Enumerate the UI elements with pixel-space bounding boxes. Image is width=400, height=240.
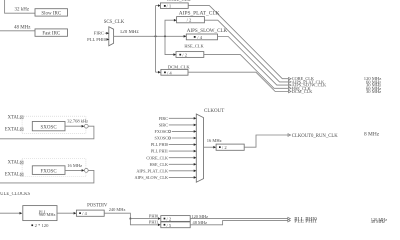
svg-text:DCM_CLK: DCM_CLK bbox=[168, 64, 191, 69]
svg-text:8 MHz: 8 MHz bbox=[364, 131, 380, 137]
arrow SIRC into clkout mux bbox=[194, 124, 197, 127]
svg-text:CORE_CLK: CORE_CLK bbox=[167, 0, 191, 2]
port arrow DCM_CLK bbox=[289, 90, 292, 93]
pad circle FXOSC input bbox=[168, 130, 170, 132]
divider /1 CORE bbox=[160, 3, 188, 8]
pin XTAL (fxosc) bbox=[20, 161, 23, 164]
svg-text:/ 2: / 2 bbox=[187, 18, 192, 23]
svg-text:EXTAL: EXTAL bbox=[5, 173, 20, 178]
container SXOSC module bbox=[22, 116, 86, 133]
pad circle FXOSC output bbox=[84, 169, 88, 173]
arrow FXOSC output bbox=[82, 169, 85, 172]
svg-text:2 * 120: 2 * 120 bbox=[35, 223, 49, 228]
divider /5 PHI1 bbox=[161, 222, 190, 228]
wire branch to PHI0 divider bbox=[130, 218, 157, 220]
svg-text:960 MHz: 960 MHz bbox=[39, 212, 56, 217]
svg-text:MODULE_CLOCKS: MODULE_CLOCKS bbox=[0, 192, 30, 197]
wire HSE_CLK to clkout mux bbox=[169, 163, 194, 165]
wire SIRC to clkout mux bbox=[169, 124, 194, 126]
wire PLL PHI0 to clkout mux bbox=[169, 144, 194, 146]
port arrow HSE_CLK bbox=[289, 87, 292, 90]
wire SIRC input from left edge bbox=[5, 0, 35, 13]
svg-text:32.768 kHz: 32.768 kHz bbox=[67, 118, 88, 123]
wire to HSE divider bbox=[165, 36, 174, 54]
svg-text:32 kHz: 32 kHz bbox=[15, 8, 30, 13]
svg-text:CLKOUT0_RUN_CLK: CLKOUT0_RUN_CLK bbox=[292, 134, 338, 139]
arrow into AIPS_PLAT divider bbox=[174, 19, 177, 22]
port arrow AIPS_PLAT_CLK bbox=[289, 81, 292, 84]
arrow SXOSC output bbox=[82, 125, 85, 128]
svg-text:/ 2: / 2 bbox=[182, 53, 187, 58]
arrow SXOSC into clkout mux bbox=[194, 137, 197, 140]
wire FXOSC output bbox=[65, 169, 82, 171]
svg-text:PLL PHI0: PLL PHI0 bbox=[151, 142, 168, 147]
svg-text:PHI0: PHI0 bbox=[149, 213, 159, 218]
wire to CORE divider and DCM divider (vertical) bbox=[156, 6, 159, 73]
svg-text:/ 1: / 1 bbox=[167, 4, 172, 9]
svg-text:FXOSC: FXOSC bbox=[155, 129, 169, 134]
svg-text:/ 4: / 4 bbox=[82, 211, 87, 216]
wire to AIPS_PLAT divider bbox=[165, 20, 174, 36]
wire SXOSC output bbox=[65, 125, 82, 127]
svg-text:XTAL: XTAL bbox=[8, 115, 20, 120]
port arrow AIPS_SLOW_CLK bbox=[289, 84, 292, 87]
pin EXTAL (sxosc) bbox=[20, 128, 23, 131]
svg-text:/ 4: / 4 bbox=[167, 70, 172, 75]
wire PLL PHI1 to clkout mux bbox=[169, 150, 194, 152]
wire AIPS_PLAT_CLK output diagonal bbox=[204, 20, 288, 82]
svg-text:FIRC: FIRC bbox=[159, 116, 169, 121]
wire PLL input from left edge bbox=[0, 212, 20, 214]
svg-text:PHI1: PHI1 bbox=[149, 220, 158, 225]
mux U1 SCS clock selector bbox=[109, 27, 114, 46]
svg-text:SXOSC: SXOSC bbox=[155, 136, 169, 141]
Slow IRC block bbox=[35, 9, 68, 16]
divider /2 CLKOUT bbox=[216, 144, 244, 150]
svg-text:HSE_CLK: HSE_CLK bbox=[184, 44, 204, 49]
wire CORE_CLK to clkout mux bbox=[169, 157, 194, 159]
PLL block bbox=[23, 206, 57, 221]
wire PHI0 output bbox=[190, 218, 287, 220]
pin EXTAL (fxosc) bbox=[20, 173, 23, 176]
wire AIPS_SLOW_CLK output diagonal bbox=[218, 37, 289, 86]
wire AIPS_PLAT_CLK to clkout mux bbox=[169, 170, 194, 172]
pin XTAL (sxosc) bbox=[20, 116, 23, 119]
arrow into DCM divider bbox=[158, 71, 161, 74]
port arrow CLKOUT_RUN_CLK bbox=[288, 134, 291, 137]
arrow PLL PHI0 into mux bbox=[106, 38, 109, 41]
svg-text:Slow IRC: Slow IRC bbox=[41, 11, 62, 16]
wire FIRC to clkout mux bbox=[169, 117, 194, 119]
arrow into HSE divider bbox=[173, 53, 176, 56]
wire PLL to POSTDIV bbox=[57, 212, 74, 214]
arrow HSE_CLK into clkout mux bbox=[194, 163, 197, 166]
Fast IRC block bbox=[35, 29, 68, 36]
wire CORE_CLK output diagonal bbox=[188, 6, 288, 79]
svg-text:120 MHz: 120 MHz bbox=[120, 30, 140, 35]
divider /4 AIPS_SLOW bbox=[186, 34, 217, 40]
svg-text:CLKOUT: CLKOUT bbox=[204, 109, 224, 114]
pad circle SXOSC output bbox=[84, 124, 88, 128]
svg-text:PLL PHI1: PLL PHI1 bbox=[294, 218, 317, 224]
svg-text:AIPS_SLOW_CLK: AIPS_SLOW_CLK bbox=[134, 175, 168, 180]
wire PHI1 output bbox=[190, 221, 287, 225]
arrow into CLKOUT divider bbox=[213, 146, 216, 149]
arrow PLL PHI1 into clkout mux bbox=[194, 150, 197, 153]
node junction PLL branch bbox=[130, 218, 132, 220]
wire POSTDIV output to branch bbox=[104, 213, 130, 218]
port arrow PLL PHI1 bbox=[288, 219, 291, 222]
svg-text:FIRC: FIRC bbox=[94, 31, 104, 36]
wire branch to PHI1 divider bbox=[130, 219, 157, 225]
arrow into PHI0 divider bbox=[158, 217, 161, 220]
svg-text:/ 5: / 5 bbox=[167, 223, 172, 228]
svg-text:SXOSC: SXOSC bbox=[41, 126, 58, 131]
svg-text:PLL PHI1: PLL PHI1 bbox=[151, 149, 168, 154]
divider /2 HSE bbox=[176, 52, 204, 58]
svg-text:FXOSC: FXOSC bbox=[41, 170, 58, 175]
port arrow CORE_CLK bbox=[289, 77, 292, 80]
divider /4 POSTDIV bbox=[76, 210, 104, 216]
divider /4 DCM bbox=[161, 69, 188, 75]
container FXOSC module bbox=[22, 159, 86, 177]
svg-text:16 MHz: 16 MHz bbox=[207, 138, 222, 143]
svg-text:120 MHz: 120 MHz bbox=[191, 214, 208, 219]
wire SXOSC to clkout mux bbox=[172, 137, 194, 139]
wire SXOSC route to left edge bbox=[0, 126, 94, 139]
label 2 * 120 bbox=[31, 224, 33, 226]
wire FXOSC route to left edge bbox=[0, 170, 94, 183]
svg-text:SIRC: SIRC bbox=[159, 123, 169, 128]
wire HSE_CLK output diagonal bbox=[204, 55, 289, 89]
svg-text:48 MHz: 48 MHz bbox=[14, 25, 31, 30]
svg-text:SCS_CLK: SCS_CLK bbox=[104, 20, 125, 25]
wire SCS_CLK main 120 MHz bbox=[114, 35, 186, 37]
wire FIRC input from left edge bbox=[0, 30, 35, 32]
wire CLKOUT_RUN_CLK bbox=[244, 135, 288, 147]
svg-text:30 MHz: 30 MHz bbox=[366, 89, 381, 94]
SXOSC block bbox=[32, 122, 65, 131]
arrow into CORE divider bbox=[158, 4, 161, 7]
arrow into PHI1 divider bbox=[158, 224, 161, 227]
svg-text:PLL PHI0: PLL PHI0 bbox=[87, 37, 107, 42]
pad circle SXOSC input bbox=[168, 137, 170, 139]
arrow into AIPS_SLOW divider bbox=[184, 35, 187, 38]
svg-text:EXTAL: EXTAL bbox=[5, 128, 20, 133]
svg-text:POSTDIV: POSTDIV bbox=[87, 204, 108, 209]
arrow into POSTDIV bbox=[74, 212, 77, 215]
svg-text:Fast IRC: Fast IRC bbox=[42, 32, 61, 37]
svg-text:/ 4: / 4 bbox=[197, 35, 202, 40]
svg-text:HSE_CLK: HSE_CLK bbox=[150, 162, 168, 167]
arrow FXOSC into clkout mux bbox=[194, 130, 197, 133]
arrow PLL PHI0 into clkout mux bbox=[194, 143, 197, 146]
arrow CORE_CLK into clkout mux bbox=[194, 156, 197, 159]
wire FXOSC to clkout mux bbox=[172, 130, 194, 132]
svg-text:DCM_CLK: DCM_CLK bbox=[292, 89, 313, 94]
mux U2 CLKOUT selector bbox=[196, 114, 203, 182]
wire FIRC to mux bbox=[105, 32, 107, 34]
svg-text:CORE_CLK: CORE_CLK bbox=[146, 155, 168, 160]
arrow AIPS_SLOW_CLK into clkout mux bbox=[194, 176, 197, 179]
wire AIPS_SLOW_CLK to clkout mux bbox=[169, 176, 194, 178]
arrow AIPS_PLAT_CLK into clkout mux bbox=[194, 170, 197, 173]
svg-text:240 MHz: 240 MHz bbox=[109, 207, 126, 212]
wire CLKOUT mux output bbox=[204, 146, 214, 148]
arrow into PLL bbox=[20, 212, 23, 215]
svg-text:/ 2: / 2 bbox=[167, 217, 172, 222]
FXOSC block bbox=[32, 166, 65, 175]
divider /2 AIPS_PLAT bbox=[177, 17, 205, 23]
node junction on main wire bbox=[155, 36, 157, 38]
svg-text:AIPS_PLAT_CLK: AIPS_PLAT_CLK bbox=[136, 168, 168, 173]
arrow FIRC into mux bbox=[106, 32, 109, 35]
svg-text:AIPS_SLOW_CLK: AIPS_SLOW_CLK bbox=[187, 28, 228, 34]
svg-text:/ 2: / 2 bbox=[222, 145, 227, 150]
svg-text:AIPS_PLAT_CLK: AIPS_PLAT_CLK bbox=[179, 10, 220, 16]
port arrow PLL PHI0 bbox=[288, 217, 291, 220]
svg-text:XTAL: XTAL bbox=[8, 161, 20, 166]
arrow FIRC into clkout mux bbox=[194, 117, 197, 120]
divider /2 PHI0 bbox=[161, 216, 190, 222]
svg-text:16 MHz: 16 MHz bbox=[67, 163, 82, 168]
wire DCM_CLK output diagonal bbox=[188, 72, 288, 91]
node junction on main wire bbox=[164, 36, 166, 38]
svg-text:48 MHz: 48 MHz bbox=[371, 219, 385, 224]
